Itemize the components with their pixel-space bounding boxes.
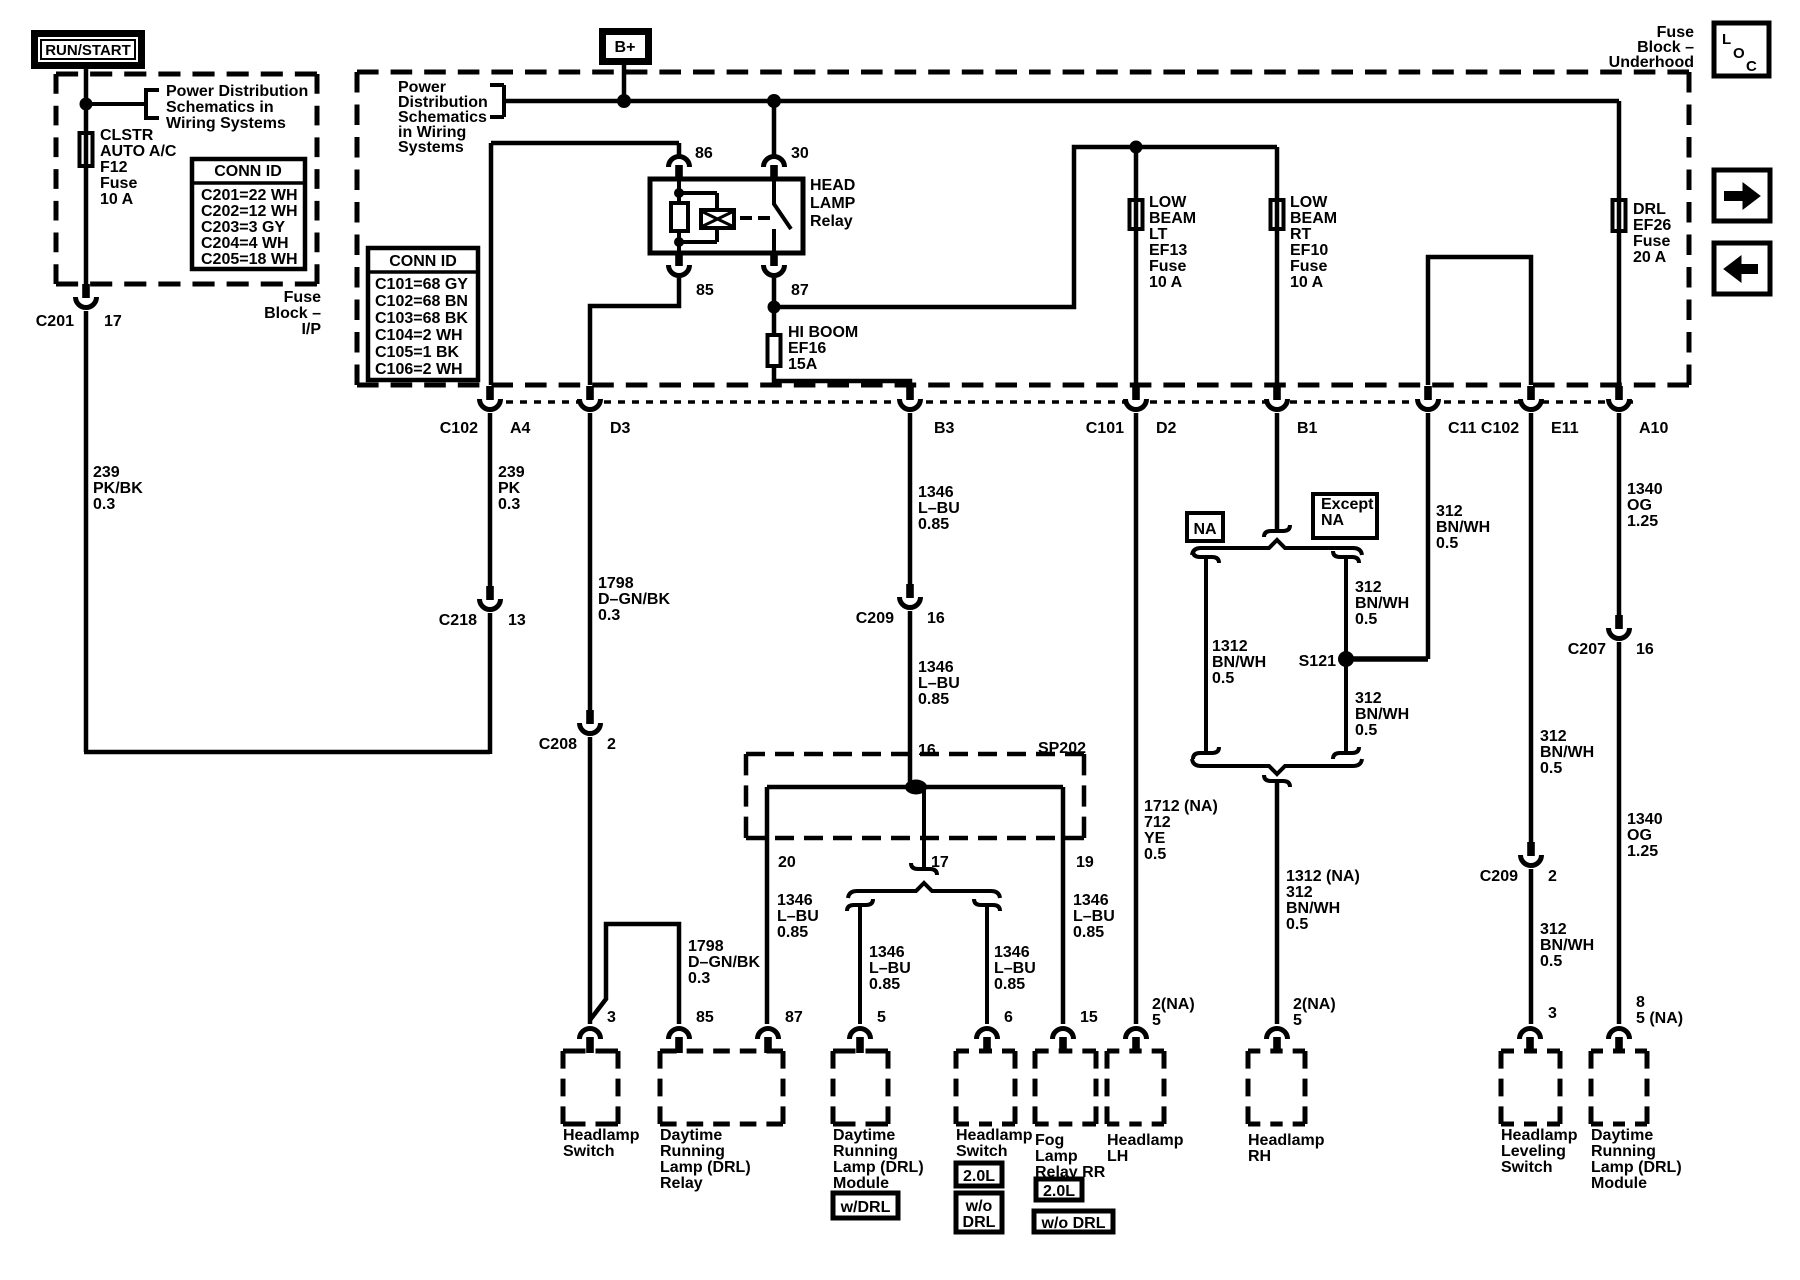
svg-text:C101: C101 [1086, 420, 1124, 437]
svg-text:Headlamp: Headlamp [1501, 1127, 1578, 1144]
svg-text:15A: 15A [788, 356, 818, 373]
svg-text:RH: RH [1248, 1148, 1271, 1165]
svg-text:16: 16 [918, 742, 936, 759]
svg-text:C102: C102 [440, 420, 478, 437]
svg-text:w/o: w/o [965, 1198, 993, 1215]
svg-text:BEAM: BEAM [1290, 210, 1337, 227]
svg-text:17: 17 [931, 854, 949, 871]
svg-text:Block –: Block – [264, 305, 321, 322]
svg-text:YE: YE [1144, 830, 1166, 847]
svg-text:Headlamp: Headlamp [1248, 1132, 1325, 1149]
svg-text:EF10: EF10 [1290, 242, 1328, 259]
svg-text:312: 312 [1436, 503, 1463, 520]
svg-text:Module: Module [1591, 1175, 1647, 1192]
svg-text:Switch: Switch [1501, 1159, 1553, 1176]
svg-text:0.3: 0.3 [93, 496, 115, 513]
svg-text:0.5: 0.5 [1212, 670, 1234, 687]
svg-text:BN/WH: BN/WH [1540, 937, 1594, 954]
svg-text:EF26: EF26 [1633, 217, 1671, 234]
svg-text:1346: 1346 [994, 944, 1030, 961]
svg-text:L: L [1722, 31, 1731, 48]
svg-text:712: 712 [1144, 814, 1171, 831]
svg-text:LAMP: LAMP [810, 195, 856, 212]
svg-text:C209: C209 [1480, 868, 1518, 885]
svg-text:1346: 1346 [777, 892, 813, 909]
svg-text:1798: 1798 [598, 575, 634, 592]
svg-text:Daytime: Daytime [1591, 1127, 1653, 1144]
svg-text:20: 20 [778, 854, 796, 871]
svg-text:19: 19 [1076, 854, 1094, 871]
svg-text:A4: A4 [510, 420, 531, 437]
svg-text:1.25: 1.25 [1627, 843, 1658, 860]
svg-text:0.5: 0.5 [1355, 722, 1377, 739]
svg-text:DRL: DRL [1633, 201, 1666, 218]
svg-text:15: 15 [1080, 1009, 1098, 1026]
svg-text:B3: B3 [934, 420, 955, 437]
svg-text:Wiring Systems: Wiring Systems [166, 115, 286, 132]
svg-text:D2: D2 [1156, 420, 1177, 437]
svg-text:Fuse: Fuse [100, 175, 137, 192]
svg-text:L–BU: L–BU [777, 908, 819, 925]
svg-text:C102=68 BN: C102=68 BN [375, 293, 468, 310]
svg-text:RUN/START: RUN/START [45, 42, 131, 59]
svg-text:0.85: 0.85 [994, 976, 1025, 993]
svg-text:Headlamp: Headlamp [563, 1127, 640, 1144]
svg-text:1312: 1312 [1212, 638, 1248, 655]
svg-text:87: 87 [785, 1009, 803, 1026]
svg-text:1312 (NA): 1312 (NA) [1286, 868, 1360, 885]
svg-text:1346: 1346 [918, 659, 954, 676]
svg-text:D–GN/BK: D–GN/BK [688, 954, 760, 971]
svg-text:Running: Running [833, 1143, 898, 1160]
svg-text:312: 312 [1355, 690, 1382, 707]
svg-text:Leveling: Leveling [1501, 1143, 1566, 1160]
svg-text:Switch: Switch [956, 1143, 1008, 1160]
svg-text:Except: Except [1321, 496, 1374, 513]
svg-text:C204=4 WH: C204=4 WH [201, 235, 289, 252]
svg-text:2.0L: 2.0L [1043, 1183, 1075, 1200]
svg-text:L–BU: L–BU [918, 500, 960, 517]
svg-text:LH: LH [1107, 1148, 1128, 1165]
svg-text:C218: C218 [439, 612, 477, 629]
svg-text:BN/WH: BN/WH [1355, 595, 1409, 612]
svg-text:10 A: 10 A [1290, 274, 1324, 291]
svg-text:L–BU: L–BU [869, 960, 911, 977]
svg-text:87: 87 [791, 282, 809, 299]
svg-text:I/P: I/P [301, 321, 321, 338]
svg-text:C207: C207 [1568, 641, 1606, 658]
svg-text:BN/WH: BN/WH [1286, 900, 1340, 917]
svg-text:0.5: 0.5 [1436, 535, 1458, 552]
svg-text:0.5: 0.5 [1286, 916, 1308, 933]
svg-text:HEAD: HEAD [810, 177, 855, 194]
svg-text:Fuse: Fuse [284, 289, 321, 306]
svg-text:C105=1 BK: C105=1 BK [375, 344, 459, 361]
svg-text:20 A: 20 A [1633, 249, 1667, 266]
svg-text:CONN ID: CONN ID [214, 163, 282, 180]
svg-text:Relay: Relay [810, 213, 853, 230]
svg-text:1346: 1346 [918, 484, 954, 501]
svg-text:Lamp (DRL): Lamp (DRL) [660, 1159, 751, 1176]
svg-text:C208: C208 [539, 736, 577, 753]
svg-text:D3: D3 [610, 420, 631, 437]
svg-text:B+: B+ [615, 39, 636, 56]
svg-text:2: 2 [1548, 868, 1557, 885]
svg-text:85: 85 [696, 282, 714, 299]
svg-text:w/o DRL: w/o DRL [1041, 1215, 1106, 1232]
svg-text:3: 3 [607, 1009, 616, 1026]
svg-text:NA: NA [1321, 512, 1345, 529]
svg-text:LT: LT [1149, 226, 1168, 243]
svg-text:NA: NA [1193, 521, 1217, 538]
svg-text:C104=2 WH: C104=2 WH [375, 327, 463, 344]
svg-text:C106=2 WH: C106=2 WH [375, 361, 463, 378]
svg-text:312: 312 [1540, 921, 1567, 938]
svg-text:0.5: 0.5 [1540, 760, 1562, 777]
svg-text:Systems: Systems [398, 139, 464, 156]
svg-text:C201=22 WH: C201=22 WH [201, 187, 298, 204]
svg-text:PK: PK [498, 480, 521, 497]
svg-text:Running: Running [660, 1143, 725, 1160]
svg-text:2(NA): 2(NA) [1293, 996, 1336, 1013]
svg-text:BN/WH: BN/WH [1540, 744, 1594, 761]
svg-text:DRL: DRL [963, 1214, 996, 1231]
svg-text:OG: OG [1627, 497, 1652, 514]
svg-text:D–GN/BK: D–GN/BK [598, 591, 670, 608]
svg-text:Daytime: Daytime [660, 1127, 722, 1144]
svg-text:312: 312 [1540, 728, 1567, 745]
svg-text:6: 6 [1004, 1009, 1013, 1026]
svg-text:Lamp (DRL): Lamp (DRL) [833, 1159, 924, 1176]
svg-text:0.5: 0.5 [1144, 846, 1166, 863]
svg-text:C209: C209 [856, 610, 894, 627]
svg-text:L–BU: L–BU [994, 960, 1036, 977]
svg-text:0.3: 0.3 [498, 496, 520, 513]
svg-text:Fuse: Fuse [1149, 258, 1186, 275]
svg-text:C103=68 BK: C103=68 BK [375, 310, 468, 327]
svg-text:1346: 1346 [1073, 892, 1109, 909]
svg-text:EF16: EF16 [788, 340, 826, 357]
svg-text:8: 8 [1636, 994, 1645, 1011]
svg-text:Fog: Fog [1035, 1132, 1064, 1149]
svg-text:239: 239 [93, 464, 120, 481]
svg-text:30: 30 [791, 145, 809, 162]
svg-text:1340: 1340 [1627, 481, 1663, 498]
svg-text:5: 5 [877, 1009, 886, 1026]
svg-text:Fuse: Fuse [1290, 258, 1327, 275]
svg-text:Relay: Relay [660, 1175, 703, 1192]
svg-text:0.85: 0.85 [869, 976, 900, 993]
svg-text:1340: 1340 [1627, 811, 1663, 828]
svg-text:1.25: 1.25 [1627, 513, 1658, 530]
svg-text:10 A: 10 A [100, 191, 134, 208]
svg-text:CLSTR: CLSTR [100, 127, 154, 144]
svg-text:L–BU: L–BU [1073, 908, 1115, 925]
svg-text:E11: E11 [1551, 420, 1579, 437]
svg-text:2(NA): 2(NA) [1152, 996, 1195, 1013]
svg-text:Headlamp: Headlamp [1107, 1132, 1184, 1149]
svg-text:0.3: 0.3 [598, 607, 620, 624]
svg-text:Lamp (DRL): Lamp (DRL) [1591, 1159, 1682, 1176]
svg-text:C205=18 WH: C205=18 WH [201, 251, 298, 268]
svg-text:CONN ID: CONN ID [389, 253, 457, 270]
svg-text:1712 (NA): 1712 (NA) [1144, 798, 1218, 815]
svg-text:312: 312 [1286, 884, 1313, 901]
svg-text:0.5: 0.5 [1355, 611, 1377, 628]
svg-text:LOW: LOW [1149, 194, 1187, 211]
svg-text:F12: F12 [100, 159, 128, 176]
svg-text:86: 86 [695, 145, 713, 162]
svg-text:0.85: 0.85 [918, 516, 949, 533]
svg-text:BN/WH: BN/WH [1436, 519, 1490, 536]
svg-text:239: 239 [498, 464, 525, 481]
svg-text:Underhood: Underhood [1609, 54, 1694, 71]
svg-text:Running: Running [1591, 1143, 1656, 1160]
svg-text:C11 C102: C11 C102 [1448, 420, 1519, 437]
svg-text:0.5: 0.5 [1540, 953, 1562, 970]
svg-text:85: 85 [696, 1009, 714, 1026]
svg-text:0.85: 0.85 [918, 691, 949, 708]
svg-text:B1: B1 [1297, 420, 1318, 437]
svg-text:2: 2 [607, 736, 616, 753]
svg-text:1346: 1346 [869, 944, 905, 961]
svg-text:S121: S121 [1299, 653, 1336, 670]
svg-text:C: C [1746, 58, 1757, 75]
svg-text:LOW: LOW [1290, 194, 1328, 211]
svg-text:0.85: 0.85 [777, 924, 808, 941]
svg-text:3: 3 [1548, 1005, 1557, 1022]
svg-text:SP202: SP202 [1038, 740, 1086, 757]
svg-text:C101=68 GY: C101=68 GY [375, 276, 468, 293]
svg-text:1798: 1798 [688, 938, 724, 955]
svg-text:2.0L: 2.0L [963, 1168, 995, 1185]
svg-text:PK/BK: PK/BK [93, 480, 143, 497]
svg-text:13: 13 [508, 612, 526, 629]
svg-text:L–BU: L–BU [918, 675, 960, 692]
svg-text:BN/WH: BN/WH [1212, 654, 1266, 671]
svg-text:Power Distribution: Power Distribution [166, 83, 308, 100]
svg-text:0.85: 0.85 [1073, 924, 1104, 941]
svg-text:5 (NA): 5 (NA) [1636, 1010, 1683, 1027]
svg-text:OG: OG [1627, 827, 1652, 844]
svg-text:0.3: 0.3 [688, 970, 710, 987]
svg-text:C202=12 WH: C202=12 WH [201, 203, 298, 220]
svg-text:Module: Module [833, 1175, 889, 1192]
svg-text:C201: C201 [36, 313, 74, 330]
svg-text:10 A: 10 A [1149, 274, 1183, 291]
svg-text:A10: A10 [1639, 420, 1668, 437]
svg-text:HI BOOM: HI BOOM [788, 324, 858, 341]
svg-text:Headlamp: Headlamp [956, 1127, 1033, 1144]
svg-text:312: 312 [1355, 579, 1382, 596]
svg-text:Schematics in: Schematics in [166, 99, 274, 116]
svg-text:Lamp: Lamp [1035, 1148, 1078, 1165]
svg-text:EF13: EF13 [1149, 242, 1187, 259]
svg-text:17: 17 [104, 313, 122, 330]
svg-text:5: 5 [1152, 1012, 1161, 1029]
svg-text:Fuse: Fuse [1633, 233, 1670, 250]
svg-text:16: 16 [927, 610, 945, 627]
svg-text:BN/WH: BN/WH [1355, 706, 1409, 723]
svg-text:Switch: Switch [563, 1143, 615, 1160]
svg-text:w/DRL: w/DRL [840, 1199, 891, 1216]
svg-text:BEAM: BEAM [1149, 210, 1196, 227]
svg-text:5: 5 [1293, 1012, 1302, 1029]
svg-text:16: 16 [1636, 641, 1654, 658]
svg-text:Daytime: Daytime [833, 1127, 895, 1144]
svg-text:AUTO A/C: AUTO A/C [100, 143, 177, 160]
svg-text:RT: RT [1290, 226, 1312, 243]
svg-text:O: O [1733, 45, 1745, 62]
svg-text:C203=3 GY: C203=3 GY [201, 219, 285, 236]
